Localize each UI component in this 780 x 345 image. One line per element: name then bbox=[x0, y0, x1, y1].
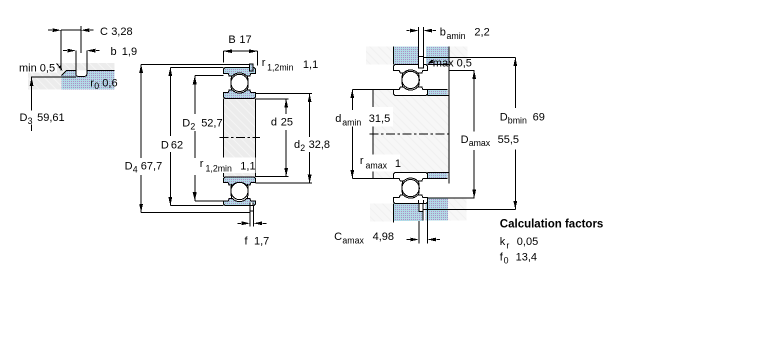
snap ring groove bbox=[419, 64, 424, 68]
svg-text:2,2: 2,2 bbox=[474, 26, 489, 38]
D3 dimension line bbox=[31, 77, 33, 131]
BOTTOM SECTION (white rings) bbox=[394, 172, 428, 211]
shaft shoulder silhouette bbox=[372, 90, 374, 179]
svg-text:52,7: 52,7 bbox=[201, 118, 222, 130]
snap ring groove bbox=[419, 200, 424, 204]
ball bbox=[402, 71, 419, 88]
svg-text:D: D bbox=[125, 161, 133, 173]
svg-text:1: 1 bbox=[395, 158, 401, 170]
svg-text:C: C bbox=[334, 231, 342, 243]
outer ring (sectioned, blue) bbox=[223, 67, 255, 76]
dimension D_amax 55,5 bbox=[473, 71, 475, 199]
D3 groove-bottom extension line bbox=[31, 76, 76, 78]
unsectioned middle band (side view of rings) bbox=[223, 98, 255, 177]
spacer outlines bbox=[428, 90, 448, 96]
svg-text:f: f bbox=[245, 235, 249, 247]
housing block top-right (blue) bbox=[426, 46, 449, 64]
cage bbox=[230, 76, 233, 90]
svg-text:r: r bbox=[200, 158, 204, 170]
TOP SECTION bbox=[223, 64, 255, 99]
dimension d 25 bbox=[256, 98, 289, 100]
outer ring bbox=[394, 195, 428, 204]
svg-text:13,4: 13,4 bbox=[516, 251, 537, 263]
snap ring groove slot (white cut at bottom right) bbox=[250, 202, 253, 205]
svg-text:D: D bbox=[182, 118, 190, 130]
svg-text:25: 25 bbox=[281, 116, 293, 128]
dimension d_amin 31,5 bbox=[352, 89, 393, 91]
r 1,2min 1,1 (bottom) bbox=[197, 158, 255, 174]
svg-text:62: 62 bbox=[171, 140, 183, 152]
svg-text:d: d bbox=[271, 116, 277, 128]
dimension b_amin 2,2 bbox=[419, 27, 424, 57]
dimension D2 52,7 bbox=[195, 75, 224, 77]
dimension D_bmin 69 bbox=[514, 57, 516, 209]
svg-text:3,28: 3,28 bbox=[111, 26, 132, 38]
svg-text:0: 0 bbox=[504, 255, 509, 265]
snap ring (protruding, white) bbox=[419, 204, 423, 212]
svg-text:2: 2 bbox=[300, 143, 305, 153]
outer ring (sectioned, blue) bbox=[223, 199, 255, 206]
svg-text:D: D bbox=[500, 111, 508, 123]
housing ghost hatch bottom-right bbox=[448, 199, 466, 221]
svg-text:b: b bbox=[440, 26, 446, 38]
housing block top-left (blue) bbox=[394, 46, 419, 64]
BOTTOM SECTION bbox=[223, 177, 255, 211]
dimension C_amax 4,98 bbox=[419, 199, 428, 244]
dimension D4 67,7 bbox=[141, 63, 250, 65]
svg-text:D: D bbox=[161, 140, 169, 152]
dimension D 62 bbox=[170, 66, 223, 68]
svg-text:k: k bbox=[500, 236, 506, 248]
centerline bbox=[220, 137, 260, 139]
min 0,5 label + leader bbox=[17, 63, 57, 73]
cage bbox=[230, 184, 233, 198]
housing block bottom-left (blue) bbox=[394, 204, 424, 221]
housing ghost hatch top-right bbox=[449, 46, 468, 64]
side silhouette verticals bbox=[223, 98, 255, 177]
svg-text:1,1: 1,1 bbox=[240, 161, 255, 173]
r_amax 1 label bbox=[357, 155, 400, 172]
housing block bottom-right (blue) bbox=[426, 199, 449, 221]
ghost ring material (hatched) bbox=[28, 63, 115, 90]
inner ring bbox=[394, 87, 428, 96]
ball bbox=[402, 180, 419, 197]
svg-text:1,2min: 1,2min bbox=[206, 164, 233, 174]
dimension B 17 bbox=[223, 50, 257, 52]
svg-text:C: C bbox=[100, 26, 108, 38]
housing bottom-left outline bbox=[393, 46, 395, 64]
dimension b arrows bbox=[67, 49, 76, 53]
svg-text:4,98: 4,98 bbox=[373, 231, 394, 243]
svg-text:69: 69 bbox=[533, 111, 545, 123]
ball bbox=[231, 74, 248, 91]
outer ring bbox=[394, 64, 428, 73]
C arrows bbox=[53, 28, 62, 32]
spacer sleeve top (blue) bbox=[428, 90, 448, 96]
svg-text:55,5: 55,5 bbox=[498, 134, 519, 146]
groove slot (white) bbox=[76, 70, 87, 76]
svg-text:amax: amax bbox=[469, 138, 491, 148]
snap ring groove slot (white cut at top right) bbox=[250, 68, 253, 72]
ring OD surface line + chamfer bbox=[62, 70, 115, 75]
dimension C: dim line bbox=[61, 29, 81, 31]
svg-text:amax: amax bbox=[342, 236, 364, 246]
svg-text:b: b bbox=[111, 46, 117, 58]
groove outline bbox=[76, 51, 87, 77]
svg-text:r: r bbox=[360, 155, 364, 167]
svg-text:D: D bbox=[20, 112, 28, 124]
svg-text:min 0,5: min 0,5 bbox=[19, 62, 55, 74]
snap ring (protruding, white) bbox=[419, 57, 424, 68]
svg-text:B: B bbox=[228, 34, 235, 46]
svg-text:1,9: 1,9 bbox=[122, 46, 137, 58]
housing face line right bbox=[448, 46, 450, 183]
svg-text:0: 0 bbox=[94, 81, 99, 91]
C right extension line bbox=[80, 26, 82, 53]
dimension f 1,7 bbox=[250, 212, 253, 227]
svg-text:r: r bbox=[262, 57, 266, 69]
spacer sleeve bottom (blue) bbox=[428, 172, 448, 178]
svg-text:67,7: 67,7 bbox=[141, 161, 162, 173]
C left extension line (ring face) bbox=[60, 30, 62, 70]
svg-text:1,7: 1,7 bbox=[254, 235, 269, 247]
dimension d2 32,8 bbox=[256, 93, 312, 95]
ball bbox=[231, 182, 248, 199]
bore/shaft lines extending right of bearing bbox=[428, 64, 449, 172]
snap ring (white side view below) bbox=[250, 206, 253, 211]
svg-text:amax: amax bbox=[366, 160, 388, 170]
svg-text:1,2min: 1,2min bbox=[267, 63, 294, 73]
svg-text:0,6: 0,6 bbox=[102, 77, 117, 89]
svg-text:max 0,5: max 0,5 bbox=[433, 57, 472, 69]
D_bmin bottom extension line bbox=[424, 208, 516, 210]
cage bbox=[401, 181, 404, 195]
svg-text:bmin: bmin bbox=[508, 115, 527, 125]
svg-text:17: 17 bbox=[239, 34, 251, 46]
inner ring (sectioned, blue) bbox=[223, 177, 255, 185]
svg-text:4: 4 bbox=[133, 165, 138, 175]
D_bmin snap ring top extension line bbox=[424, 56, 516, 58]
cage bbox=[401, 73, 404, 87]
snap ring (blue tab, sectioned) bbox=[250, 64, 253, 71]
housing ghost hatch bottom-left bbox=[370, 204, 394, 222]
svg-text:32,8: 32,8 bbox=[309, 139, 330, 151]
housing ghost hatch top-left bbox=[366, 46, 393, 64]
svg-text:amin: amin bbox=[342, 118, 361, 128]
svg-text:2: 2 bbox=[190, 121, 195, 131]
svg-text:amin: amin bbox=[447, 31, 466, 41]
max 0,5 label + leader bbox=[430, 60, 434, 62]
centerline (right figure) bbox=[370, 133, 451, 135]
svg-text:d: d bbox=[335, 113, 341, 125]
D_amax extension lines bbox=[449, 70, 475, 72]
TOP SECTION (white rings) bbox=[394, 57, 428, 96]
svg-text:Calculation factors: Calculation factors bbox=[500, 218, 604, 230]
svg-text:3: 3 bbox=[28, 116, 33, 126]
svg-text:31,5: 31,5 bbox=[369, 113, 390, 125]
svg-text:1,1: 1,1 bbox=[303, 59, 318, 71]
shaft (unsectioned, hatched) bbox=[373, 90, 449, 179]
svg-text:0,05: 0,05 bbox=[517, 236, 538, 248]
svg-text:D: D bbox=[461, 134, 469, 146]
inner ring (sectioned, blue) bbox=[223, 90, 255, 98]
svg-text:r: r bbox=[506, 240, 509, 250]
svg-text:59,61: 59,61 bbox=[37, 112, 65, 124]
inner ring bbox=[394, 172, 428, 181]
outer ring corner cross-section (blue) bbox=[62, 70, 115, 89]
